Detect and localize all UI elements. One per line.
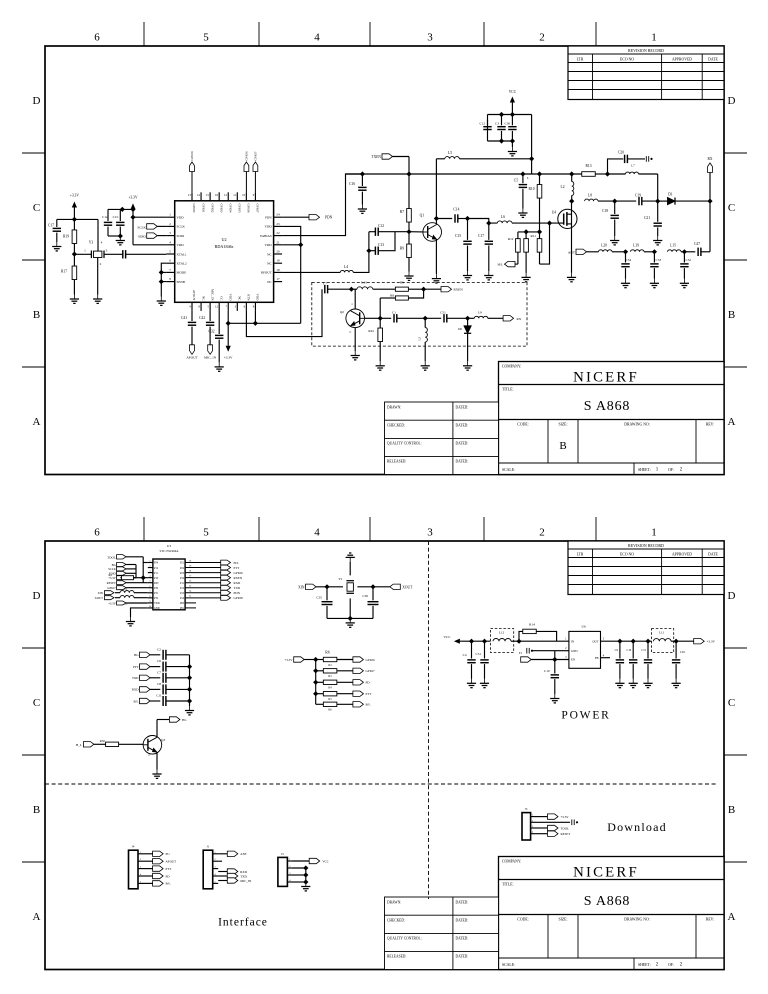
rail wire <box>532 173 582 175</box>
svg-text:OUT: OUT <box>592 639 598 643</box>
svg-text:R6: R6 <box>328 709 332 712</box>
junction <box>187 687 192 692</box>
capacitor C54 <box>625 252 627 263</box>
wire stub <box>185 602 196 604</box>
svg-text:6: 6 <box>169 259 171 263</box>
svg-text:H/L: H/L <box>498 263 503 267</box>
junction <box>682 249 687 254</box>
svg-text:P12: P12 <box>154 567 159 570</box>
svg-text:D: D <box>728 95 736 107</box>
svg-text:5: 5 <box>207 305 209 309</box>
wire <box>161 263 166 281</box>
svg-text:P11: P11 <box>180 582 185 585</box>
svg-text:17: 17 <box>189 574 192 577</box>
svg-text:U4: U4 <box>552 211 557 215</box>
port PU <box>144 853 153 855</box>
wire bus <box>120 565 136 578</box>
svg-text:12: 12 <box>215 305 219 309</box>
wire RTN <box>246 289 322 336</box>
svg-text:C2: C2 <box>157 647 161 651</box>
svg-text:SCLK: SCLK <box>137 226 146 230</box>
junction <box>253 321 258 326</box>
capacitor C10 <box>551 675 559 678</box>
wire <box>353 232 369 273</box>
junction <box>674 639 679 644</box>
svg-text:DATE: DATE <box>708 58 718 62</box>
svg-text:Q1: Q1 <box>420 214 425 218</box>
svg-text:+3.3V: +3.3V <box>128 196 138 200</box>
svg-text:SDIO: SDIO <box>138 235 146 239</box>
svg-text:18: 18 <box>189 569 192 572</box>
svg-text:7: 7 <box>226 305 228 309</box>
svg-text:+3.3V: +3.3V <box>284 658 293 662</box>
port B/L <box>144 882 153 884</box>
svg-text:REVISION RECORD: REVISION RECORD <box>628 543 664 548</box>
svg-text:3: 3 <box>169 231 171 235</box>
wire <box>327 617 373 619</box>
power flag +3.3V out <box>694 639 705 644</box>
svg-text:GPIO2: GPIO2 <box>210 204 214 213</box>
inductor La <box>115 592 120 594</box>
capacitor C51 <box>425 317 441 319</box>
svg-text:SENB: SENB <box>177 280 186 284</box>
wire <box>143 562 148 564</box>
svg-text:C: C <box>728 697 735 709</box>
resistor R6b <box>316 670 324 672</box>
resistor R7 <box>408 174 410 209</box>
junction <box>486 221 491 226</box>
svg-text:QUALITY CONTROL:: QUALITY CONTROL: <box>387 937 422 941</box>
svg-text:BG: BG <box>134 653 139 657</box>
svg-text:C3: C3 <box>495 122 499 126</box>
wire <box>133 216 166 218</box>
wire <box>108 235 120 237</box>
svg-text:17: 17 <box>276 277 280 281</box>
svg-text:PTT: PTT <box>166 867 172 871</box>
svg-text:3: 3 <box>106 249 108 253</box>
ground <box>351 351 360 360</box>
capacitor C52 <box>683 252 685 263</box>
port EN flag <box>521 657 532 662</box>
wire <box>132 209 134 244</box>
capacitor C20 <box>608 159 624 174</box>
svg-text:L2: L2 <box>561 185 565 189</box>
ground <box>467 679 476 688</box>
ground <box>116 236 125 245</box>
svg-text:L15: L15 <box>670 244 676 248</box>
svg-text:RDA1846s: RDA1846s <box>215 244 234 249</box>
svg-text:XOUT: XOUT <box>95 596 103 600</box>
svg-text:10: 10 <box>242 193 246 197</box>
svg-text:GND: GND <box>154 607 160 610</box>
port ANT <box>218 853 227 855</box>
border frame <box>45 46 724 475</box>
title block <box>499 857 725 970</box>
capacitor C17 <box>56 219 58 227</box>
svg-text:P21: P21 <box>180 562 185 565</box>
junction <box>520 171 525 176</box>
port GPIO6 <box>185 572 221 574</box>
svg-text:C41: C41 <box>181 316 187 320</box>
port TXD <box>185 587 221 589</box>
wire PABIAS <box>282 174 362 236</box>
svg-text:4: 4 <box>314 32 320 44</box>
svg-text:B/L: B/L <box>134 699 139 703</box>
svg-text:C1: C1 <box>392 311 396 315</box>
svg-text:SCALE:: SCALE: <box>502 963 515 967</box>
svg-text:PDN: PDN <box>265 216 272 220</box>
svg-text:J3: J3 <box>525 807 528 811</box>
ground <box>432 274 441 283</box>
svg-text:+3.3V: +3.3V <box>108 601 116 605</box>
capacitor C32 <box>218 311 220 334</box>
svg-text:C1b: C1b <box>113 215 119 219</box>
svg-text:2: 2 <box>565 647 567 650</box>
inductor L15 <box>668 250 682 252</box>
capacitor C1 <box>394 314 397 322</box>
resistor R6d <box>316 693 324 695</box>
svg-text:RFOUT: RFOUT <box>261 271 272 275</box>
capacitor C1b <box>119 209 121 221</box>
svg-text:DRAWN:: DRAWN: <box>387 406 401 410</box>
svg-text:DATED:: DATED: <box>456 460 469 464</box>
svg-text:MIC_1N: MIC_1N <box>210 289 214 301</box>
svg-text:PTT: PTT <box>133 665 139 669</box>
svg-text:C1a: C1a <box>102 215 108 219</box>
ground <box>610 236 619 245</box>
capacitor C6 <box>163 662 166 672</box>
svg-text:C20: C20 <box>618 151 624 155</box>
svg-text:DATED:: DATED: <box>456 937 469 941</box>
svg-text:C21: C21 <box>644 216 650 220</box>
ground <box>404 272 413 281</box>
revision record table <box>568 46 724 100</box>
capacitor C41 <box>191 311 193 321</box>
approvals table <box>385 402 499 475</box>
svg-text:C36: C36 <box>362 594 368 598</box>
ground <box>376 361 385 370</box>
dashed divider horizontal <box>45 783 718 785</box>
svg-text:DATED:: DATED: <box>456 901 469 905</box>
svg-text:VDD: VDD <box>265 243 273 247</box>
junction <box>348 616 353 621</box>
svg-text:Q3: Q3 <box>161 738 165 742</box>
junction <box>159 279 164 284</box>
resistor R12b <box>525 232 527 239</box>
svg-text:C18: C18 <box>602 209 608 213</box>
svg-text:U2: U2 <box>221 237 226 242</box>
zone letters <box>33 95 736 428</box>
wire gate <box>512 222 564 224</box>
port TOOL <box>536 827 548 829</box>
svg-text:D: D <box>33 95 41 107</box>
svg-text:P10: P10 <box>154 577 159 580</box>
svg-text:1: 1 <box>351 302 353 306</box>
svg-text:C17: C17 <box>478 234 484 238</box>
svg-text:J4: J4 <box>132 845 135 849</box>
resistor R12 <box>517 232 519 239</box>
svg-text:LTR: LTR <box>577 553 584 557</box>
svg-text:3: 3 <box>427 32 433 44</box>
power flag +3.3V <box>130 203 135 209</box>
wire <box>97 219 99 251</box>
ground <box>185 706 194 715</box>
ground <box>629 679 638 688</box>
inductor L3 <box>424 318 426 327</box>
resistor R11 <box>539 233 541 239</box>
svg-text:J5: J5 <box>281 852 284 856</box>
junction <box>187 698 192 703</box>
inductor L6 <box>497 221 512 223</box>
junction <box>617 639 622 644</box>
port H_L <box>515 263 518 265</box>
svg-text:GPIO7: GPIO7 <box>107 586 116 590</box>
svg-text:C52: C52 <box>686 258 692 262</box>
svg-text:MIC_IN: MIC_IN <box>240 879 252 883</box>
junction <box>360 171 365 176</box>
junction <box>612 199 617 204</box>
svg-text:R12: R12 <box>508 237 514 241</box>
svg-text:CHECKED:: CHECKED: <box>387 424 405 428</box>
svg-text:DATED:: DATED: <box>456 406 469 410</box>
ground <box>421 361 430 370</box>
port XOUT <box>390 584 401 589</box>
svg-text:14: 14 <box>197 193 201 197</box>
capacitor C47 <box>684 251 695 253</box>
inductor L19 <box>631 250 645 252</box>
capacitor C3 <box>501 115 503 126</box>
capacitor C29 <box>675 641 677 658</box>
svg-text:GPIO1: GPIO1 <box>201 204 205 213</box>
svg-text:P13: P13 <box>180 592 185 595</box>
svg-text:5: 5 <box>169 250 171 254</box>
junction <box>552 657 557 662</box>
svg-text:C12: C12 <box>378 224 384 228</box>
svg-text:C11: C11 <box>156 694 162 698</box>
svg-text:RXEN: RXEN <box>234 576 243 580</box>
svg-text:C53: C53 <box>656 258 662 262</box>
svg-text:D1: D1 <box>668 193 673 197</box>
junction <box>605 171 610 176</box>
svg-text:SHEET:: SHEET: <box>638 468 651 472</box>
junction <box>187 664 192 669</box>
border frame <box>45 541 724 970</box>
svg-text:+3.3V: +3.3V <box>70 194 80 198</box>
port RXD <box>185 582 221 584</box>
svg-text:DATED:: DATED: <box>456 919 469 923</box>
svg-text:C14: C14 <box>453 208 459 212</box>
svg-text:RTN: RTN <box>247 294 251 301</box>
svg-text:B: B <box>559 440 566 452</box>
svg-text:VDD: VDD <box>265 225 273 229</box>
resistor R10 <box>539 174 541 185</box>
resistor R17 <box>73 254 75 266</box>
svg-text:GPIO6: GPIO6 <box>234 571 243 575</box>
svg-text:2: 2 <box>148 754 150 757</box>
ground <box>152 770 161 779</box>
revision record table <box>568 541 724 595</box>
svg-text:R9: R9 <box>400 247 404 251</box>
svg-text:TOOL: TOOL <box>107 555 115 559</box>
resistor R19 <box>73 219 75 230</box>
inductor L11 <box>652 629 674 653</box>
port PD <box>353 680 364 685</box>
svg-text:CODE:: CODE: <box>517 423 528 427</box>
spark gap <box>536 821 570 823</box>
capacitor C13 <box>369 250 376 252</box>
svg-text:D: D <box>33 590 41 602</box>
svg-text:OF:: OF: <box>668 963 674 967</box>
ground <box>301 882 310 891</box>
junction <box>569 171 574 176</box>
mosfet U4 <box>558 209 577 228</box>
svg-text:C9: C9 <box>615 649 619 652</box>
svg-text:C35: C35 <box>316 596 322 600</box>
inductor L9 <box>474 316 488 318</box>
wire FB <box>601 657 611 659</box>
port H/L <box>185 562 221 564</box>
svg-text:19: 19 <box>276 259 280 263</box>
wire RFOUT <box>282 271 340 273</box>
svg-text:L: L <box>527 176 529 180</box>
wire <box>468 219 498 224</box>
svg-text:C16: C16 <box>349 182 355 186</box>
port +3.3V <box>536 816 548 818</box>
svg-text:L12: L12 <box>499 631 505 635</box>
svg-text:R2: R2 <box>328 664 332 667</box>
svg-text:SCLK: SCLK <box>177 225 186 229</box>
svg-text:C47: C47 <box>694 242 700 246</box>
svg-text:GPIO0: GPIO0 <box>190 151 194 160</box>
capacitor C11 <box>163 696 166 706</box>
svg-text:R8: R8 <box>390 294 394 298</box>
svg-text:XIN: XIN <box>298 585 305 589</box>
svg-text:DATED:: DATED: <box>456 955 469 959</box>
svg-text:OF:: OF: <box>668 468 674 472</box>
resistor R5 <box>395 287 408 291</box>
svg-text:23: 23 <box>276 222 280 226</box>
svg-text:13: 13 <box>189 595 192 598</box>
svg-text:B: B <box>33 804 40 816</box>
port RX top <box>709 173 711 202</box>
svg-text:VDD: VDD <box>228 294 232 302</box>
svg-text:RXD: RXD <box>240 870 247 874</box>
svg-text:Download: Download <box>607 820 667 834</box>
junction <box>655 199 660 204</box>
svg-text:C51: C51 <box>476 652 482 656</box>
capacitor C14 <box>436 218 452 220</box>
svg-text:R2: R2 <box>108 573 112 577</box>
svg-text:A: A <box>33 911 41 923</box>
svg-text:QUALITY CONTROL:: QUALITY CONTROL: <box>387 442 422 446</box>
junction <box>118 233 123 238</box>
junction <box>366 248 371 253</box>
svg-text:PDN: PDN <box>325 216 333 220</box>
wire <box>554 651 556 674</box>
wire <box>657 174 659 201</box>
svg-text:2: 2 <box>169 222 171 226</box>
svg-text:FB: FB <box>595 656 599 660</box>
ground inverted <box>346 553 355 562</box>
wire emitter <box>435 239 437 274</box>
svg-text:VCC: VCC <box>322 859 329 863</box>
svg-text:11: 11 <box>233 193 236 197</box>
connector J5 <box>278 857 288 886</box>
svg-text:+3.3V: +3.3V <box>561 815 570 819</box>
svg-text:POWER: POWER <box>561 710 610 722</box>
svg-text:C12: C12 <box>480 122 486 126</box>
transistor Q3 <box>143 736 162 755</box>
svg-text:L8: L8 <box>588 194 592 198</box>
wire bus <box>293 868 306 882</box>
svg-text:L9: L9 <box>478 311 482 315</box>
svg-text:16: 16 <box>215 193 219 197</box>
svg-text:8: 8 <box>198 305 200 309</box>
wire OUT <box>601 640 652 642</box>
svg-text:HL: HL <box>182 718 187 722</box>
svg-text:15: 15 <box>206 193 210 197</box>
svg-text:REVISION RECORD: REVISION RECORD <box>628 48 664 53</box>
wire <box>380 317 391 319</box>
junction <box>313 680 318 685</box>
wire <box>218 860 222 862</box>
svg-text:GPIO3: GPIO3 <box>219 204 223 213</box>
transistor Q1 <box>423 223 442 242</box>
svg-text:RESET: RESET <box>561 832 571 836</box>
crystal Y3 <box>91 251 104 259</box>
svg-text:P61: P61 <box>180 607 185 610</box>
svg-text:3: 3 <box>565 656 567 659</box>
svg-text:6: 6 <box>94 32 100 44</box>
svg-text:SIZE:: SIZE: <box>558 423 567 427</box>
svg-text:2: 2 <box>539 32 545 44</box>
svg-text:VCC: VCC <box>509 90 517 94</box>
wire collector <box>354 289 356 309</box>
svg-text:F1: F1 <box>519 651 523 655</box>
svg-text:LTR: LTR <box>577 58 584 62</box>
port PTT <box>185 567 221 569</box>
svg-text:L19: L19 <box>633 244 639 248</box>
svg-text:R14: R14 <box>529 623 535 627</box>
svg-text:L4: L4 <box>344 265 348 269</box>
port TXD <box>218 875 227 877</box>
svg-text:NICERF: NICERF <box>573 865 639 881</box>
capacitor C42 <box>209 311 211 321</box>
svg-text:P60: P60 <box>180 602 185 605</box>
svg-text:+3.3V: +3.3V <box>707 640 716 644</box>
svg-text:C7: C7 <box>323 282 327 286</box>
svg-text:C32: C32 <box>209 330 215 334</box>
ground <box>126 617 135 626</box>
junction <box>141 575 146 580</box>
svg-text:VDD: VDD <box>154 602 160 605</box>
junction <box>499 112 504 117</box>
svg-text:SCLK: SCLK <box>108 567 117 571</box>
svg-text:6: 6 <box>94 527 100 539</box>
svg-text:C15: C15 <box>641 649 646 652</box>
wire <box>532 650 555 652</box>
svg-text:P14: P14 <box>180 597 185 600</box>
wire bus <box>189 655 191 706</box>
svg-text:C54: C54 <box>626 258 632 262</box>
dashed divider vertical <box>428 541 430 899</box>
connector J4 <box>129 850 139 889</box>
svg-text:13: 13 <box>188 193 192 197</box>
junction <box>469 639 474 644</box>
ground <box>463 271 472 280</box>
resistor R30 <box>106 742 119 746</box>
port GPIO8 <box>185 597 221 599</box>
